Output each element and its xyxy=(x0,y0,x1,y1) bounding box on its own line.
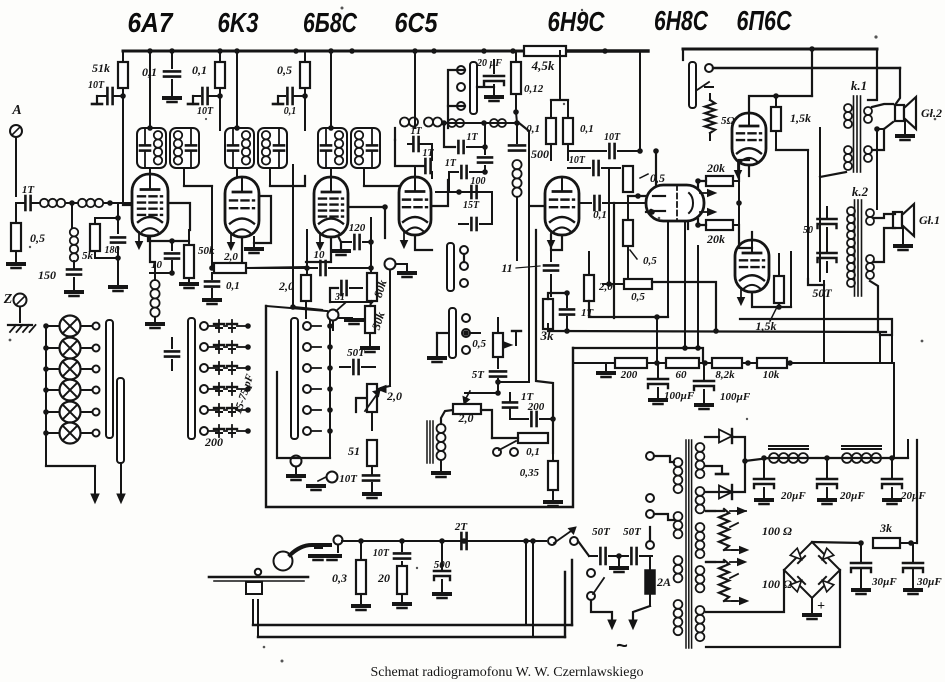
svg-text:Gł.1: Gł.1 xyxy=(919,213,940,227)
svg-text:50k: 50k xyxy=(198,245,215,257)
svg-text:100µF: 100µF xyxy=(664,390,695,402)
svg-text:0,1: 0,1 xyxy=(226,280,240,292)
svg-text:2,0: 2,0 xyxy=(278,279,294,293)
svg-text:5Ω: 5Ω xyxy=(721,115,736,127)
svg-text:6K3: 6K3 xyxy=(218,7,259,38)
svg-text:+: + xyxy=(817,599,825,614)
svg-text:Gł.2: Gł.2 xyxy=(921,106,942,120)
svg-text:1T: 1T xyxy=(22,184,36,196)
svg-text:10T: 10T xyxy=(604,132,621,143)
svg-text:20 µF: 20 µF xyxy=(476,58,502,69)
svg-text:10: 10 xyxy=(314,249,326,261)
svg-text:30µF: 30µF xyxy=(871,576,897,588)
svg-text:5T: 5T xyxy=(472,369,486,381)
svg-text:6П6C: 6П6C xyxy=(737,5,793,36)
svg-text:20µF: 20µF xyxy=(839,490,865,502)
svg-text:1T: 1T xyxy=(410,126,422,137)
svg-text:200: 200 xyxy=(527,401,545,413)
svg-text:0,5: 0,5 xyxy=(30,231,45,245)
svg-text:1T: 1T xyxy=(445,158,457,169)
svg-text:0,1: 0,1 xyxy=(580,123,594,135)
svg-text:0,3: 0,3 xyxy=(332,571,347,585)
svg-text:4,5k: 4,5k xyxy=(531,58,555,73)
svg-text:11: 11 xyxy=(501,261,512,275)
svg-text:0,5: 0,5 xyxy=(643,255,657,267)
svg-text:6Б8C: 6Б8C xyxy=(303,7,358,38)
svg-text:2,0: 2,0 xyxy=(386,389,402,403)
svg-text:5k: 5k xyxy=(82,250,94,262)
svg-text:30µF: 30µF xyxy=(916,576,942,588)
svg-text:A: A xyxy=(11,103,21,118)
svg-text:0,1: 0,1 xyxy=(192,63,207,77)
svg-text:50: 50 xyxy=(803,225,813,236)
svg-text:20k: 20k xyxy=(706,232,725,246)
svg-text:6H8C: 6H8C xyxy=(654,5,709,36)
svg-text:0,1: 0,1 xyxy=(526,446,540,458)
svg-text:Schemat radiogramofonu W. W. C: Schemat radiogramofonu W. W. Czernlawski… xyxy=(371,665,644,680)
svg-text:1,5k: 1,5k xyxy=(756,319,777,333)
svg-text:0,1: 0,1 xyxy=(593,209,607,221)
svg-text:120: 120 xyxy=(349,222,366,234)
svg-text:10T: 10T xyxy=(88,80,105,91)
svg-text:2T: 2T xyxy=(454,521,469,533)
svg-text:100µF: 100µF xyxy=(720,391,751,403)
svg-text:51: 51 xyxy=(348,444,360,458)
svg-text:1,5k: 1,5k xyxy=(790,111,811,125)
svg-text:1T: 1T xyxy=(466,132,478,143)
svg-text:100 Ω: 100 Ω xyxy=(762,524,792,538)
svg-text:2,0: 2,0 xyxy=(458,411,474,425)
svg-text:50T: 50T xyxy=(347,347,366,359)
svg-text:20: 20 xyxy=(377,571,390,585)
svg-text:0,5: 0,5 xyxy=(472,338,486,350)
svg-text:60: 60 xyxy=(676,369,688,381)
svg-text:200: 200 xyxy=(204,435,223,449)
svg-text:10: 10 xyxy=(151,259,163,271)
svg-text:100 Ω: 100 Ω xyxy=(762,577,792,591)
svg-text:500: 500 xyxy=(531,147,549,161)
svg-text:50T: 50T xyxy=(812,286,832,300)
svg-text:2,0: 2,0 xyxy=(223,251,238,263)
svg-text:200: 200 xyxy=(620,369,638,381)
svg-text:Z: Z xyxy=(3,292,13,307)
svg-text:10T: 10T xyxy=(373,548,390,559)
svg-text:20µF: 20µF xyxy=(900,490,926,502)
svg-text:50T: 50T xyxy=(592,526,611,538)
svg-text:~: ~ xyxy=(616,635,628,657)
svg-text:51k: 51k xyxy=(92,61,110,75)
svg-text:0,12: 0,12 xyxy=(524,83,544,95)
svg-text:10T: 10T xyxy=(197,106,214,117)
svg-text:50T: 50T xyxy=(623,526,642,538)
svg-text:3k: 3k xyxy=(879,521,892,535)
svg-text:6C5: 6C5 xyxy=(395,7,438,38)
svg-text:10k: 10k xyxy=(763,369,780,381)
svg-text:15T: 15T xyxy=(463,200,480,211)
svg-text:10T: 10T xyxy=(339,473,358,485)
svg-text:8,2k: 8,2k xyxy=(715,369,735,381)
svg-text:100: 100 xyxy=(471,176,486,187)
svg-text:2A: 2A xyxy=(656,575,671,589)
svg-text:20µF: 20µF xyxy=(780,490,806,502)
svg-text:0,5: 0,5 xyxy=(650,171,665,185)
svg-text:0,1: 0,1 xyxy=(284,106,297,117)
svg-text:0,5: 0,5 xyxy=(631,291,645,303)
svg-text:k.1: k.1 xyxy=(851,78,867,93)
svg-text:150: 150 xyxy=(38,268,56,282)
svg-text:k.2: k.2 xyxy=(852,184,869,199)
svg-text:0,35: 0,35 xyxy=(520,467,540,479)
svg-text:20k: 20k xyxy=(706,161,725,175)
svg-text:6A7: 6A7 xyxy=(128,7,174,38)
svg-text:0,5: 0,5 xyxy=(277,63,292,77)
svg-text:6H9C: 6H9C xyxy=(548,6,606,37)
svg-text:10T: 10T xyxy=(569,155,586,166)
